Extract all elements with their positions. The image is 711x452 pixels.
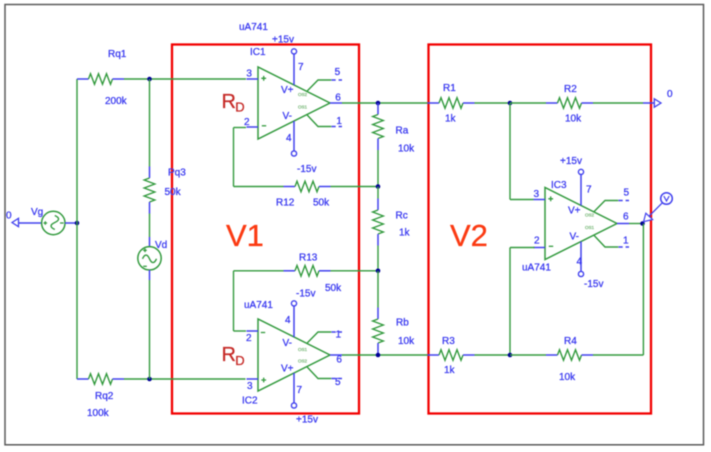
- svg-text:IC1: IC1: [250, 47, 266, 58]
- wire output stub: [643, 102, 654, 104]
- source Vg: [42, 211, 65, 234]
- wire Pq3 to Vd: [149, 214, 151, 238]
- svg-text:D: D: [235, 353, 244, 368]
- svg-text:7: 7: [298, 62, 304, 73]
- svg-text:IC3: IC3: [551, 180, 567, 191]
- node C (R1/R2/IC3.3): [508, 101, 513, 106]
- resistor Rq1 200k: [77, 78, 89, 80]
- block V2 box: [429, 45, 652, 414]
- svg-text:Vd: Vd: [155, 240, 167, 251]
- svg-text:R2: R2: [564, 84, 577, 95]
- node E (R3/R4/IC3.2): [508, 353, 513, 358]
- block V1 box: [172, 45, 359, 414]
- svg-text:6: 6: [335, 93, 341, 104]
- svg-text:Vg: Vg: [31, 207, 43, 218]
- svg-text:5: 5: [335, 377, 341, 388]
- svg-text:6: 6: [336, 355, 342, 366]
- op-amp IC2 uA741: [247, 301, 343, 408]
- svg-text:1: 1: [623, 236, 629, 247]
- svg-text:R: R: [222, 344, 236, 366]
- node out2/Rb: [376, 353, 381, 358]
- wire IC2 pin2 feedback: [234, 330, 247, 332]
- svg-text:7: 7: [586, 185, 592, 196]
- wire left rail vertical: [76, 79, 78, 379]
- node A (Rq1/Pq3/IC1.3): [147, 77, 152, 82]
- svg-text:Rq1: Rq1: [108, 49, 127, 60]
- svg-text:50k: 50k: [313, 198, 330, 209]
- svg-text:V1: V1: [226, 218, 264, 253]
- wire Vd to node B: [149, 280, 151, 379]
- svg-text:uA741: uA741: [522, 263, 551, 274]
- wire Rb upper lead: [377, 271, 379, 308]
- wire Ra to Rc node: [377, 150, 379, 187]
- wire R13 to divider: [331, 270, 379, 272]
- svg-text:3: 3: [246, 69, 252, 80]
- svg-text:Rc: Rc: [396, 211, 408, 222]
- svg-text:OS1: OS1: [585, 225, 595, 230]
- svg-text:5: 5: [335, 67, 341, 78]
- IO pin 0 (right): [654, 99, 661, 107]
- svg-text:uA741: uA741: [244, 300, 273, 311]
- svg-text:-15v: -15v: [584, 279, 603, 290]
- svg-text:6: 6: [623, 212, 629, 223]
- svg-text:OS2: OS2: [298, 359, 308, 364]
- svg-text:50k: 50k: [325, 283, 342, 294]
- resistor Rc 1k: [377, 199, 379, 211]
- wire R3 to node E: [475, 354, 511, 356]
- op-amp IC3 uA741: [534, 169, 630, 276]
- svg-text:4: 4: [285, 315, 291, 326]
- svg-text:3: 3: [534, 189, 540, 200]
- svg-text:+15v: +15v: [560, 156, 582, 167]
- IO pin 0 (left): [12, 218, 19, 226]
- wire Vd top stub: [149, 237, 151, 247]
- svg-text:10k: 10k: [398, 336, 415, 347]
- svg-text:1k: 1k: [444, 365, 456, 376]
- svg-text:50k: 50k: [165, 187, 182, 198]
- svg-text:R: R: [222, 91, 236, 113]
- svg-text:4: 4: [577, 257, 583, 268]
- wire Rc to Rb node: [377, 246, 379, 271]
- svg-text:R1: R1: [443, 83, 456, 94]
- svg-text:R4: R4: [564, 336, 577, 347]
- svg-text:Rb: Rb: [396, 318, 409, 329]
- wire IC1 pin2 feedback: [234, 127, 247, 129]
- resistor Pq3 50k: [149, 167, 151, 179]
- svg-text:OS1: OS1: [298, 347, 308, 352]
- op-amp IC1 uA741: [247, 49, 343, 156]
- svg-text:1: 1: [336, 116, 342, 127]
- svg-text:OS1: OS1: [298, 105, 308, 110]
- wire Vg to left rail: [65, 222, 77, 224]
- svg-text:0: 0: [6, 211, 12, 222]
- svg-text:Pq3: Pq3: [168, 168, 186, 179]
- wire R12 to divider: [331, 186, 379, 188]
- svg-text:V-: V-: [570, 232, 579, 243]
- node Rc/Rb/R13: [376, 269, 381, 274]
- svg-text:-15v: -15v: [296, 289, 315, 300]
- node D (IC3.6/R4/probe): [640, 221, 645, 226]
- resistor R4 10k: [546, 354, 558, 356]
- wire Rq2 to node B: [124, 378, 246, 380]
- wire Rq1 to node A: [124, 78, 246, 80]
- resistor R13 50k: [284, 270, 296, 272]
- svg-text:V-: V-: [283, 111, 292, 122]
- wire Vd bottom stub: [149, 270, 151, 280]
- wire IC1 out: [342, 102, 428, 104]
- svg-text:V+: V+: [568, 206, 581, 217]
- svg-text:V+: V+: [281, 364, 294, 375]
- wire Vg left stub: [19, 222, 42, 224]
- node out1/Ra: [376, 101, 381, 106]
- resistor R3 1k: [428, 354, 440, 356]
- svg-text:2: 2: [244, 117, 250, 128]
- svg-text:1k: 1k: [445, 114, 457, 125]
- wire IC2 out: [342, 354, 428, 356]
- svg-text:100k: 100k: [87, 408, 110, 419]
- resistor R12 50k: [284, 186, 296, 188]
- svg-text:10k: 10k: [398, 144, 415, 155]
- svg-text:OS2: OS2: [298, 92, 308, 97]
- wire node C to R2: [510, 102, 546, 104]
- resistor Ra 10k: [377, 103, 379, 115]
- svg-text:V2: V2: [450, 218, 488, 253]
- node left-rail/Vg junction: [75, 221, 80, 226]
- svg-text:uA741: uA741: [239, 22, 268, 33]
- wire Rc upper lead: [377, 187, 379, 199]
- svg-text:Rq2: Rq2: [95, 391, 114, 402]
- svg-text:V+: V+: [281, 85, 294, 96]
- node B (Rq2/Vd/IC2.3): [147, 377, 152, 382]
- svg-text:Ra: Ra: [396, 126, 409, 137]
- svg-text:4: 4: [286, 133, 292, 144]
- source Vd: [138, 247, 161, 270]
- wire R4 to node D: [593, 354, 643, 356]
- svg-text:+15v: +15v: [272, 35, 294, 46]
- svg-text:1k: 1k: [399, 228, 411, 239]
- voltage probe V: [661, 193, 673, 205]
- svg-text:+15v: +15v: [296, 415, 318, 426]
- wire R1 to node C: [475, 102, 511, 104]
- svg-text:OS2: OS2: [585, 213, 595, 218]
- wire node E to R4: [510, 354, 546, 356]
- svg-text:2: 2: [534, 236, 540, 247]
- resistor Rq2 100k: [77, 378, 89, 380]
- wire IC3 out to node D: [629, 223, 643, 225]
- svg-text:7: 7: [297, 385, 303, 396]
- wire node C to IC3 pin3: [509, 103, 511, 200]
- svg-text:2: 2: [246, 333, 252, 344]
- resistor Rb 10k: [377, 308, 379, 320]
- svg-text:D: D: [235, 100, 244, 115]
- wire IC3 pin2 net: [510, 247, 535, 249]
- svg-text:IC2: IC2: [242, 396, 258, 407]
- svg-text:10k: 10k: [565, 114, 582, 125]
- svg-text:R3: R3: [442, 336, 455, 347]
- svg-text:-15v: -15v: [297, 164, 316, 175]
- svg-text:3: 3: [247, 381, 253, 392]
- svg-text:0: 0: [667, 89, 673, 100]
- resistor R1 1k: [428, 102, 440, 104]
- wire R2 to output pin: [593, 102, 643, 104]
- node Ra/Rc/R12: [376, 184, 381, 189]
- svg-text:R12: R12: [276, 198, 295, 209]
- svg-text:V-: V-: [283, 338, 292, 349]
- svg-text:1: 1: [336, 330, 342, 341]
- resistor R2 10k: [546, 102, 558, 104]
- wire node A down to Pq3: [149, 79, 151, 167]
- svg-text:200k: 200k: [105, 96, 128, 107]
- svg-text:R13: R13: [299, 253, 318, 264]
- svg-text:5: 5: [624, 188, 630, 199]
- svg-text:10k: 10k: [559, 372, 576, 383]
